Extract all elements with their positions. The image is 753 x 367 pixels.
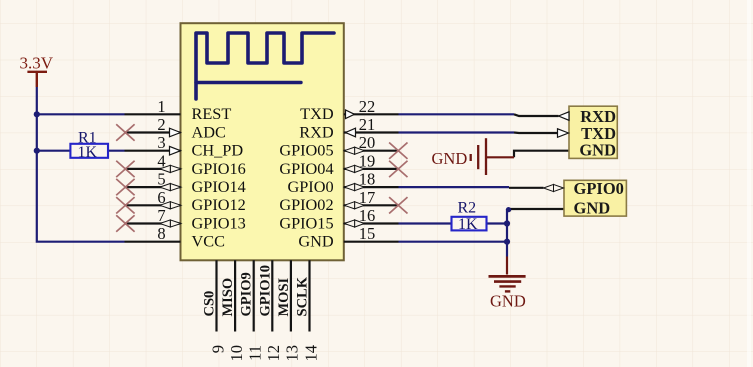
io arrow pin17 [344, 202, 364, 209]
antenna meander graphic [196, 33, 334, 99]
svg-text:VCC: VCC [192, 232, 225, 251]
svg-text:RXD: RXD [299, 122, 334, 141]
svg-text:9: 9 [208, 345, 227, 353]
svg-text:2: 2 [157, 115, 165, 134]
wire GND column [506, 209, 508, 257]
pin 1 [125, 113, 181, 115]
pin 12 [271, 260, 273, 331]
pin 14 [308, 260, 310, 331]
pin 3 [125, 150, 181, 152]
svg-text:REST: REST [192, 104, 232, 123]
wire R1 to pin3 [107, 150, 125, 152]
svg-text:14: 14 [301, 345, 320, 362]
header J2 GPIO0/GND box [564, 180, 626, 216]
output arrow pin22 [346, 110, 355, 119]
svg-text:15: 15 [359, 224, 376, 243]
pin 18 [344, 186, 399, 188]
wire R2 to junction [487, 222, 508, 224]
node junction rail-pin3 [34, 148, 40, 154]
wire pin21 to TXD header [399, 131, 515, 133]
pin numbers bottom rotated [208, 345, 320, 362]
svg-text:1K: 1K [78, 144, 98, 161]
power GND1 symbol horizontal [471, 138, 514, 175]
svg-text:GND: GND [579, 141, 616, 160]
svg-text:10: 10 [227, 345, 246, 362]
svg-text:GPIO02: GPIO02 [279, 195, 333, 214]
wire pin16 to R2 [399, 222, 452, 224]
svg-text:GPIO15: GPIO15 [279, 213, 333, 232]
io arrow pin4 [160, 165, 181, 172]
pin 5 [125, 186, 181, 188]
output arrow header RXD [559, 112, 570, 121]
svg-text:GPIO04: GPIO04 [279, 159, 333, 178]
pin name labels right column [279, 104, 334, 250]
node junction pin15 column [504, 239, 510, 245]
ground symbol bottom [489, 257, 526, 292]
svg-text:GND: GND [574, 198, 611, 217]
no-ERC X pin5 [116, 179, 134, 195]
svg-text:1: 1 [157, 97, 165, 116]
svg-text:MISO: MISO [220, 278, 236, 317]
io arrow pin6 [160, 202, 181, 209]
wire rail to pin1 [37, 113, 125, 115]
svg-text:GPIO05: GPIO05 [279, 141, 333, 160]
pin 13 [290, 260, 292, 331]
no-ERC X pin19 [389, 161, 407, 177]
pin 16 [344, 222, 399, 224]
wire 3.3V rail vertical [37, 87, 125, 242]
node junction R2 column [504, 220, 510, 226]
io arrow pin5 [160, 184, 181, 191]
svg-text:8: 8 [157, 224, 165, 243]
io arrow pin19 [344, 165, 364, 172]
svg-text:CS0: CS0 [202, 291, 218, 317]
svg-text:ADC: ADC [192, 122, 226, 141]
svg-text:GPIO13: GPIO13 [192, 213, 246, 232]
svg-text:CH_PD: CH_PD [192, 141, 244, 160]
io arrow pin7 [160, 220, 181, 227]
resistor R2 [452, 217, 487, 231]
input arrow header TXD [558, 129, 569, 138]
svg-text:GPIO14: GPIO14 [192, 177, 246, 196]
header J1 RXD/TXD/GND box [569, 106, 617, 158]
svg-text:TXD: TXD [300, 104, 334, 123]
io arrow pin18 [344, 184, 364, 191]
pin 21 [344, 131, 399, 133]
svg-text:12: 12 [264, 345, 283, 362]
pin 7 [125, 222, 181, 224]
pin 6 [125, 204, 181, 206]
pin 17 [344, 204, 399, 206]
svg-text:GPIO0: GPIO0 [574, 179, 624, 198]
pin 15 [344, 241, 399, 243]
power 3.3V symbol [27, 72, 47, 87]
no-ERC X pin7 [116, 215, 134, 231]
no-ERC X pin20 [389, 143, 407, 159]
svg-text:MOSI: MOSI [276, 277, 292, 316]
antenna feed line [196, 81, 301, 84]
io arrow pin16 [344, 220, 364, 227]
svg-text:GPIO16: GPIO16 [192, 159, 246, 178]
input arrow pin21 [346, 128, 356, 137]
svg-text:GND: GND [432, 149, 468, 168]
svg-text:GND: GND [490, 292, 526, 311]
pin 9 [215, 260, 217, 331]
svg-text:GPIO10: GPIO10 [257, 265, 273, 317]
svg-text:3: 3 [157, 133, 165, 152]
wire GND power to header [514, 151, 569, 158]
pin numbers right [359, 97, 376, 243]
wire pin15 to junction [399, 241, 508, 243]
pin 2 [125, 131, 181, 133]
svg-text:SCLK: SCLK [295, 276, 311, 316]
pin numbers left [157, 97, 165, 243]
svg-text:GND: GND [298, 232, 334, 251]
svg-text:3.3V: 3.3V [20, 54, 54, 73]
wire junction corner to GND header row [507, 209, 564, 210]
pin 4 [125, 168, 181, 170]
resistor R1 [70, 144, 108, 158]
no-ERC X pin4 [116, 161, 134, 177]
pin name labels left column [192, 104, 246, 250]
svg-text:21: 21 [359, 115, 376, 134]
svg-text:1K: 1K [458, 216, 478, 233]
svg-text:R2: R2 [458, 200, 477, 217]
wire pin18 to GPIO0 header [399, 186, 510, 188]
input arrow pin2 [170, 128, 181, 137]
pin 10 [234, 260, 236, 331]
no-ERC X pin2 [116, 124, 134, 140]
svg-text:11: 11 [246, 345, 265, 361]
wire pin22 to RXD header [399, 113, 515, 115]
io arrow header GPIO0 [544, 184, 564, 191]
svg-text:GPIO9: GPIO9 [239, 272, 255, 316]
pin 11 [253, 260, 255, 331]
op-amp U1 ESP8266 module body [181, 23, 344, 260]
svg-text:22: 22 [359, 97, 376, 116]
io arrow pin20 [344, 147, 364, 154]
node junction rail-pin1 [34, 111, 40, 117]
pin 19 [344, 168, 399, 170]
wire rail to R1 [37, 150, 71, 152]
svg-text:GPIO12: GPIO12 [192, 195, 246, 214]
svg-text:13: 13 [283, 345, 302, 362]
pin 22 [344, 113, 399, 115]
no-ERC X pin6 [116, 197, 134, 213]
pin 20 [344, 150, 399, 152]
no-ERC X pin17 [389, 197, 407, 213]
pin 8 [125, 241, 181, 243]
svg-text:GPIO0: GPIO0 [287, 177, 333, 196]
input arrow pin3 [170, 146, 181, 155]
